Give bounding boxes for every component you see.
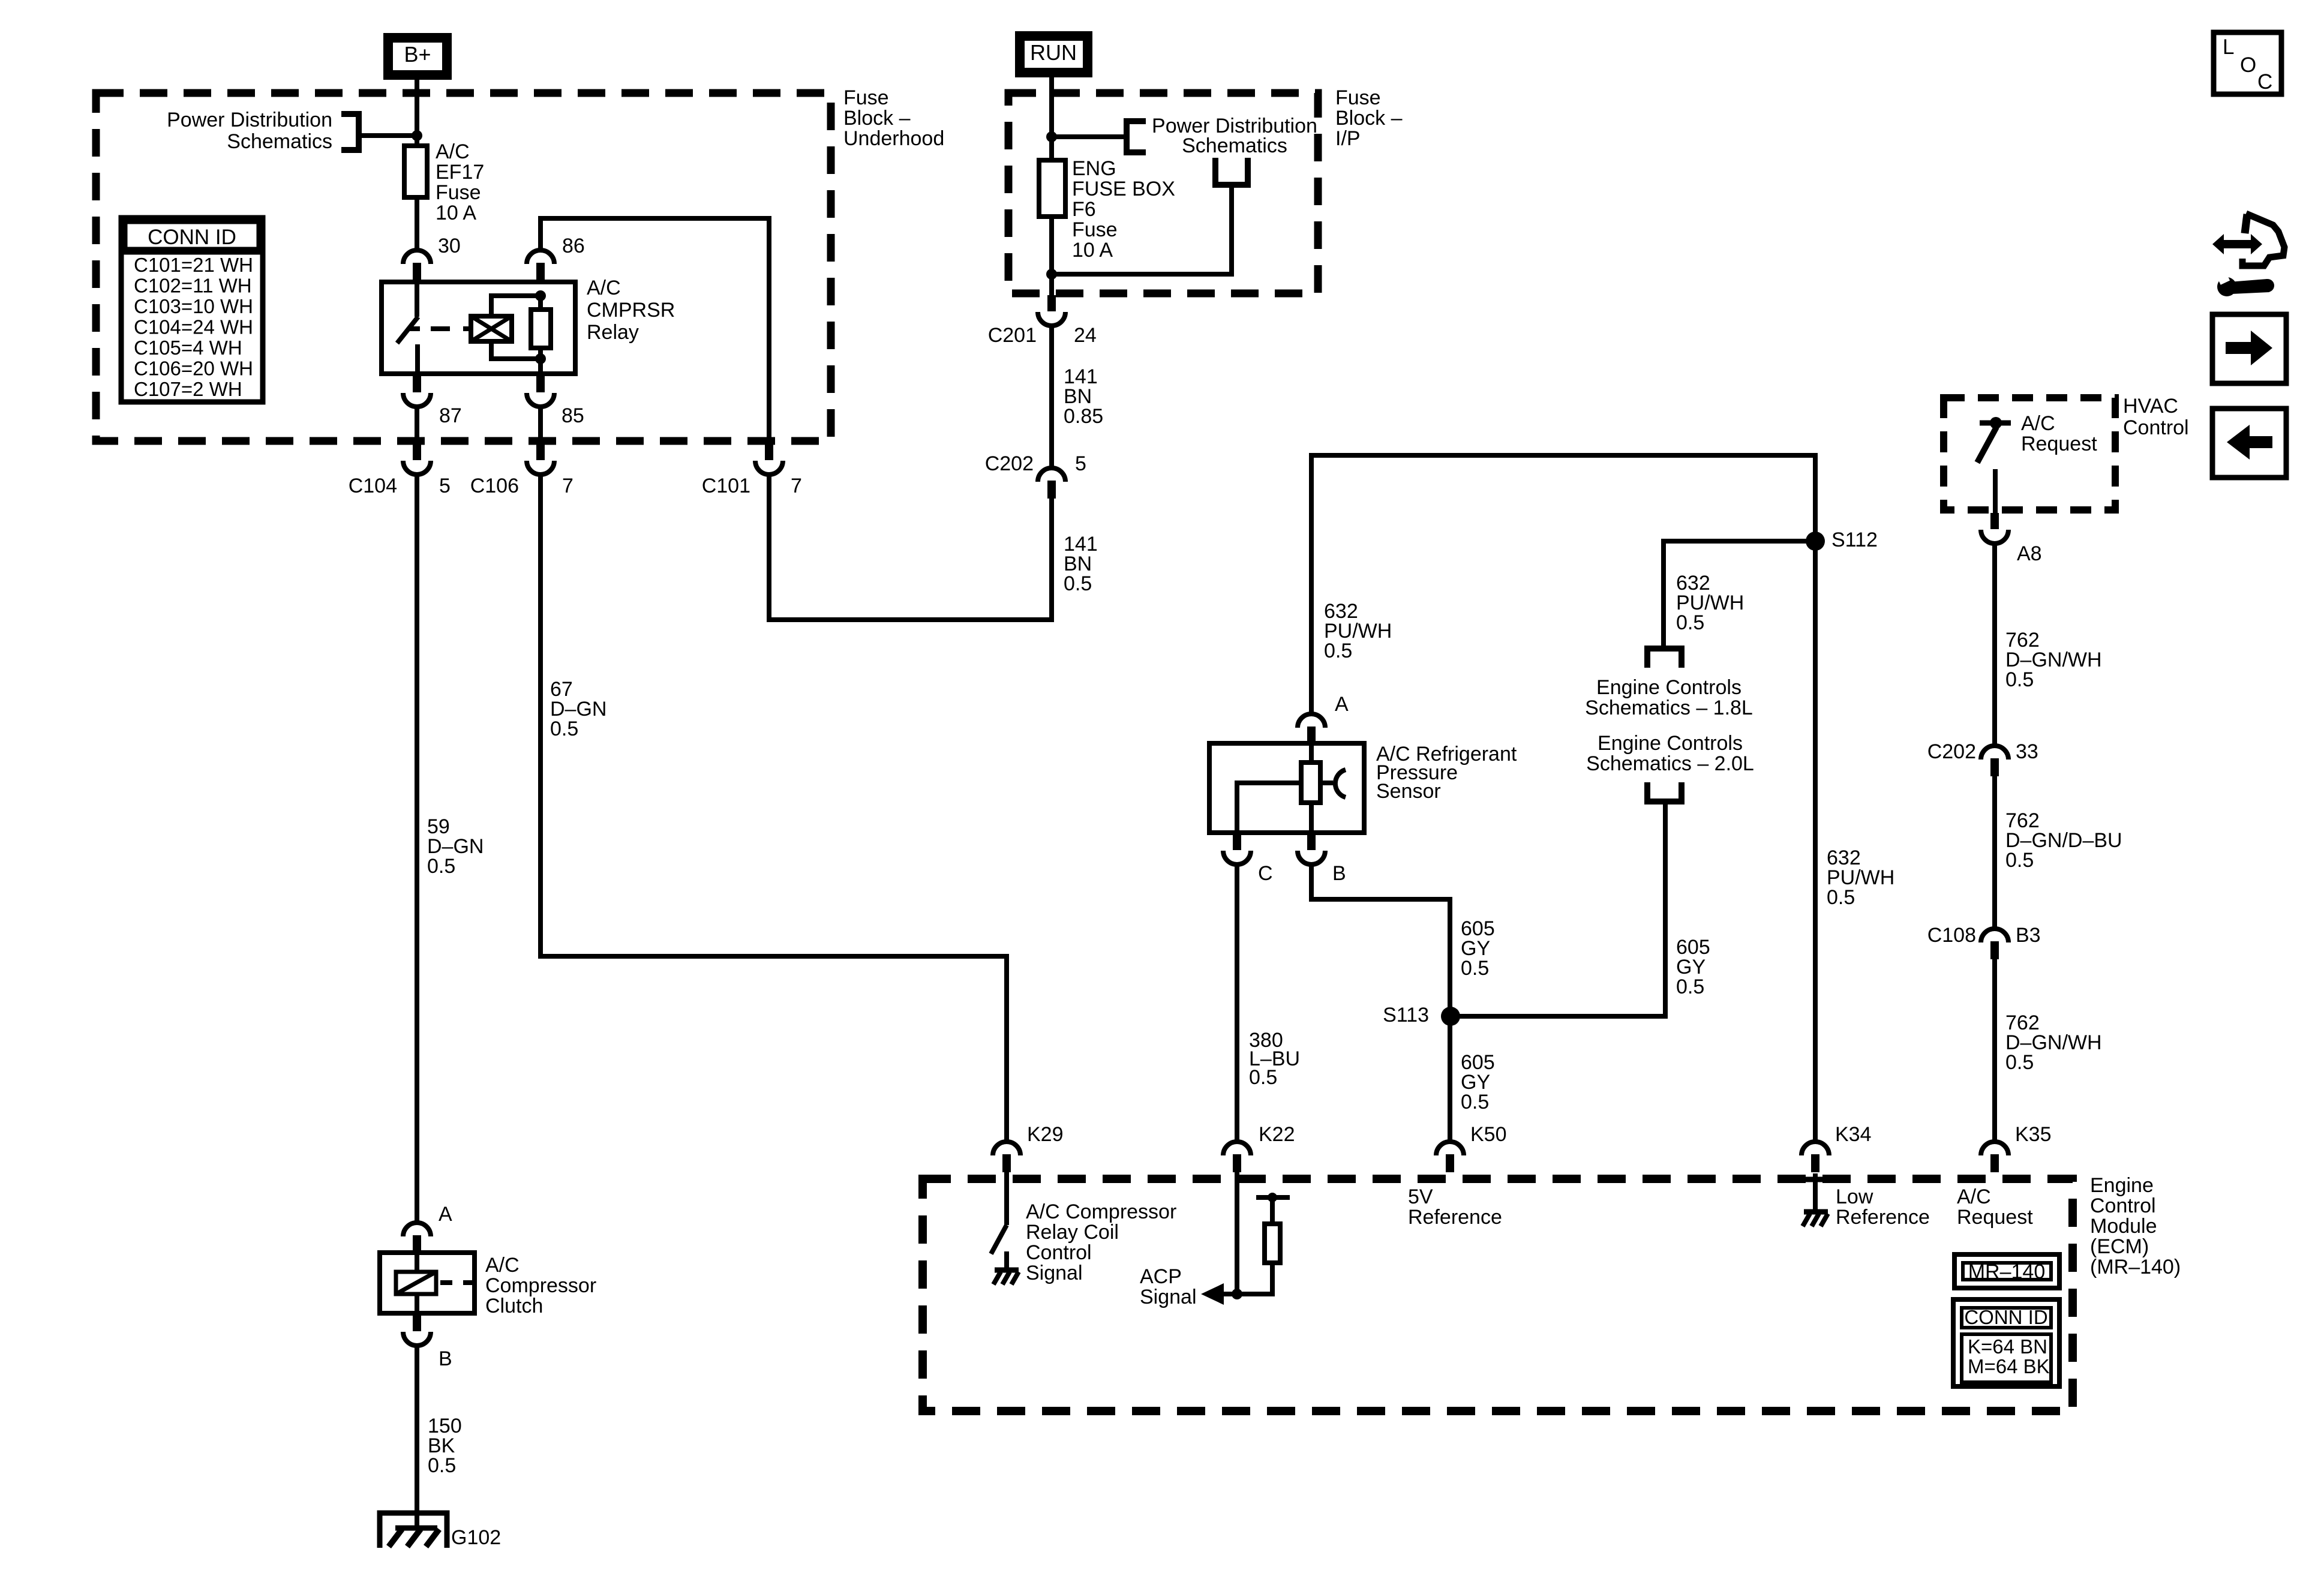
label G102 (451, 1526, 501, 1549)
ground G102 hatch (389, 1528, 439, 1547)
svg-text:Low: Low (1836, 1185, 1873, 1208)
label C202 (pin 33) (1927, 740, 1976, 763)
label A/C Request (ECM) (1957, 1185, 2033, 1229)
label C104 pin 5 (439, 475, 451, 497)
svg-text:0.5: 0.5 (1676, 975, 1704, 998)
svg-text:Underhood: Underhood (843, 127, 944, 150)
wire fuse to relay pin 30 (415, 197, 419, 250)
wire C202-33 to C108 (1992, 776, 1997, 929)
label HVAC Control (2123, 395, 2189, 439)
label K34 (1835, 1123, 1872, 1146)
label C202 (pin 5) (985, 452, 1034, 475)
ground G102 frame (380, 1513, 447, 1548)
relay coil wiring bottom (491, 341, 541, 359)
svg-text:(MR–140): (MR–140) (2090, 1256, 2181, 1278)
power feed RUN box (1015, 31, 1092, 77)
wire C101 routing to C202 (769, 475, 1052, 620)
svg-text:C104: C104 (349, 475, 397, 497)
off-page bracket right (Power Distribution I/P) (1052, 118, 1146, 155)
label Engine Controls Schematics 2.0L (1586, 732, 1754, 775)
ECM K22 sense wire (1235, 1172, 1239, 1294)
label wire 762 D-GN/WH 0.5 (lower) (2005, 1011, 2102, 1074)
label K35 (2015, 1123, 2052, 1146)
svg-text:Reference: Reference (1408, 1206, 1502, 1229)
wire sensor B to S113/K50 (1311, 864, 1450, 1142)
power feed B+ box (383, 33, 452, 80)
label sensor pin B (1332, 862, 1346, 885)
off-page bracket Engine Controls 1.8L (1644, 649, 1685, 668)
svg-text:A/C: A/C (2021, 412, 2055, 435)
svg-text:0.5: 0.5 (428, 1454, 456, 1477)
label C101 pin 7 (791, 475, 802, 497)
wire pin 87 to C104 (415, 407, 419, 445)
svg-text:Engine: Engine (2090, 1174, 2154, 1197)
svg-text:87: 87 (439, 404, 462, 427)
svg-text:C101: C101 (702, 475, 750, 497)
label wire 605 GY 0.5 (sensor B) (1461, 917, 1495, 980)
svg-text:10 A: 10 A (1072, 239, 1113, 262)
svg-text:0.5: 0.5 (1461, 957, 1489, 980)
svg-text:Request: Request (2021, 433, 2097, 455)
connector K34 (1801, 1142, 1829, 1172)
label A/C Compressor Relay Coil Control Signal (1026, 1200, 1176, 1284)
svg-text:Power Distribution: Power Distribution (167, 109, 332, 131)
connector sensor pin B (1298, 834, 1325, 864)
svg-text:Schematics – 1.8L: Schematics – 1.8L (1585, 697, 1753, 719)
label Engine Control Module ECM MR-140 (2090, 1174, 2181, 1278)
ground hatch (low reference) (1803, 1212, 1828, 1226)
connector C201 pin 24 (1038, 295, 1065, 326)
svg-text:Signal: Signal (1026, 1262, 1083, 1284)
svg-text:Block –: Block – (843, 107, 911, 130)
svg-text:86: 86 (562, 235, 585, 257)
svg-text:A8: A8 (2017, 542, 2042, 565)
sensor pressure arc (1320, 770, 1346, 797)
CONN ID box (ECM) (1953, 1299, 2059, 1386)
dashed box Fuse Block I/P (1008, 93, 1318, 293)
svg-text:Engine Controls: Engine Controls (1598, 732, 1743, 755)
svg-text:30: 30 (438, 235, 461, 257)
svg-text:L: L (2223, 35, 2234, 59)
svg-text:0.5: 0.5 (1827, 886, 1855, 909)
label pin 85 (562, 404, 584, 427)
svg-text:0.5: 0.5 (2005, 668, 2034, 691)
svg-text:10 A: 10 A (436, 202, 476, 224)
junction node coil top (535, 290, 546, 301)
svg-text:C101=21 WH: C101=21 WH (134, 254, 253, 276)
label C106 pin 7 (562, 475, 574, 497)
svg-text:HVAC: HVAC (2123, 395, 2178, 418)
label wire 632 PU/WH 0.5 (sensor A) (1324, 600, 1392, 662)
label Fuse Block Underhood (843, 86, 944, 150)
wire C104 to A/C compressor clutch (415, 475, 419, 1223)
svg-text:K50: K50 (1470, 1123, 1507, 1146)
label C201 (988, 324, 1037, 347)
connector relay pin 87 (403, 376, 431, 407)
svg-text:0.5: 0.5 (1064, 572, 1092, 595)
svg-text:5: 5 (1075, 452, 1086, 475)
svg-text:0.85: 0.85 (1064, 405, 1103, 428)
svg-text:5: 5 (439, 475, 451, 497)
svg-text:C104=24 WH: C104=24 WH (134, 316, 253, 338)
sensor internal resistor (1301, 743, 1320, 833)
svg-text:C202: C202 (1927, 740, 1976, 763)
svg-text:B: B (439, 1347, 452, 1370)
label C201 pin 24 (1074, 324, 1097, 347)
wire S112 to K34 (1813, 541, 1818, 1142)
svg-text:C102=11 WH: C102=11 WH (134, 275, 252, 297)
svg-text:0.5: 0.5 (1324, 640, 1352, 662)
wire S112 branch to 1.8L bracket (1664, 541, 1815, 649)
label A/C CMPRSR Relay (587, 277, 675, 344)
svg-text:Fuse: Fuse (436, 181, 481, 204)
connector C101 pin 7 (755, 444, 783, 475)
label A/C Request (HVAC) (2021, 412, 2097, 455)
svg-text:0.5: 0.5 (2005, 849, 2034, 872)
label wire 632 PU/WH 0.5 (branch) (1676, 572, 1744, 634)
label ENG FUSE BOX F6 (1072, 157, 1175, 262)
label wire 762 D-GN/WH 0.5 (upper) (2005, 629, 2102, 691)
sensor internal wire to pin C (1237, 783, 1301, 833)
MR-140 box (1954, 1254, 2059, 1288)
wire A8 to C202-33 (1992, 544, 1997, 746)
A/C refrigerant pressure sensor box (1209, 743, 1364, 833)
svg-text:Fuse: Fuse (1335, 86, 1381, 109)
label Fuse Block I/P (1335, 86, 1403, 150)
ground hatch (K29 driver) (993, 1270, 1019, 1284)
label wire 141 BN 0.5 (1064, 533, 1098, 595)
svg-text:MR–140: MR–140 (1968, 1260, 2046, 1283)
svg-text:A: A (1335, 693, 1349, 716)
svg-text:24: 24 (1074, 324, 1097, 347)
dashed box Fuse Block Underhood (96, 93, 831, 441)
svg-text:C103=10 WH: C103=10 WH (134, 295, 253, 317)
connector sensor pin C (1223, 834, 1251, 864)
wire C108 to K35 (1992, 959, 1997, 1142)
svg-text:C105=4 WH: C105=4 WH (134, 337, 242, 359)
svg-text:7: 7 (791, 475, 802, 497)
fuse A/C EF17 10A (404, 146, 427, 197)
connector clutch pin A (403, 1223, 431, 1253)
svg-text:Reference: Reference (1836, 1206, 1930, 1229)
vehicle + wrench icon (2212, 214, 2284, 296)
svg-text:S113: S113 (1383, 1004, 1429, 1026)
next-page arrow box (2212, 314, 2286, 383)
svg-text:CONN ID: CONN ID (148, 226, 236, 249)
splice S113 (1441, 1007, 1460, 1026)
A/C request switch (1977, 417, 2011, 513)
label A/C Compressor Clutch (485, 1254, 596, 1317)
label S112 (1831, 529, 1878, 551)
wire B+ to junction (415, 80, 419, 147)
label C202 pin 5 (1075, 452, 1086, 475)
label wire 67 D-GN 0.5 (550, 678, 606, 740)
svg-text:F6: F6 (1072, 198, 1096, 221)
ECM low reference ground (1800, 1173, 1830, 1213)
svg-text:K=64 BN: K=64 BN (1968, 1335, 2047, 1358)
wire C106 to K29 (541, 475, 1007, 1142)
connector K29 (993, 1142, 1020, 1172)
label wire 632 PU/WH 0.5 (K34) (1827, 846, 1894, 909)
svg-text:Compressor: Compressor (485, 1274, 596, 1297)
svg-text:A: A (439, 1203, 452, 1226)
svg-text:C108: C108 (1927, 924, 1976, 947)
connector C104 pin 5 (403, 444, 431, 475)
label C202 pin 33 (2016, 740, 2038, 763)
relay actuator dashed link (431, 326, 471, 331)
off-page bracket Power Distribution return (1052, 158, 1251, 274)
label Power Distribution Schematics (left) (167, 109, 332, 153)
svg-text:Control: Control (2123, 416, 2189, 439)
svg-text:Relay Coil: Relay Coil (1026, 1221, 1119, 1244)
svg-text:Engine Controls: Engine Controls (1596, 676, 1742, 699)
svg-text:Schematics – 2.0L: Schematics – 2.0L (1586, 752, 1754, 775)
svg-text:85: 85 (562, 404, 584, 427)
svg-text:Request: Request (1957, 1206, 2033, 1229)
label Low Reference (1836, 1185, 1930, 1229)
connector C202 pin 5 (1038, 468, 1065, 499)
label sensor pin C (1258, 862, 1273, 885)
connector K35 (1981, 1142, 2008, 1172)
label clutch pin B (439, 1347, 452, 1370)
wire S113 branch to 2.0L bracket (1451, 803, 1665, 1016)
wire coil to pin 85 (538, 359, 543, 374)
label wire 605 GY 0.5 (branch) (1676, 936, 1710, 998)
svg-text:0.5: 0.5 (1249, 1066, 1277, 1089)
svg-text:A/C: A/C (587, 277, 621, 299)
connector K22 (1223, 1142, 1251, 1172)
svg-text:0.5: 0.5 (1676, 611, 1704, 634)
wire C201 feed (1049, 274, 1054, 295)
connector sensor pin A (1298, 714, 1325, 745)
dashed box Engine Control Module (923, 1179, 2073, 1411)
label pin 30 (438, 235, 461, 257)
label C104 (349, 475, 397, 497)
relay coil wiring top (491, 296, 541, 316)
svg-text:Control: Control (2090, 1194, 2156, 1217)
svg-text:CONN ID: CONN ID (1964, 1306, 2047, 1328)
label 5V Reference (1408, 1185, 1502, 1229)
wire RUN down (1049, 77, 1054, 162)
connector relay pin 86 (527, 250, 554, 281)
ECM switch (relay coil driver) (991, 1172, 1007, 1268)
label wire 59 D-GN 0.5 (427, 815, 484, 878)
svg-text:C: C (2257, 70, 2272, 94)
connector K50 (1436, 1142, 1464, 1172)
label S113 (1383, 1004, 1429, 1026)
svg-text:Relay: Relay (587, 321, 639, 344)
svg-text:5V: 5V (1408, 1185, 1433, 1208)
LOC icon box (2214, 32, 2281, 94)
svg-text:Block –: Block – (1335, 107, 1403, 130)
svg-text:Fuse: Fuse (843, 86, 889, 109)
svg-text:K34: K34 (1835, 1123, 1872, 1146)
svg-text:Signal: Signal (1140, 1286, 1197, 1308)
ECM pullup supply bar (1256, 1193, 1290, 1202)
label C108 pin B3 (2016, 924, 2041, 947)
ECM pullup resistor (1237, 1197, 1280, 1294)
svg-text:C107=2 WH: C107=2 WH (134, 378, 242, 400)
connector relay pin 30 (403, 250, 431, 281)
label pin 86 (562, 235, 585, 257)
connector A8 (1981, 513, 2008, 544)
svg-text:EF17: EF17 (436, 161, 484, 184)
connector C108 pin B3 (1981, 929, 2008, 959)
svg-text:Schematics: Schematics (227, 130, 332, 153)
svg-text:ENG: ENG (1072, 157, 1116, 180)
label wire 605 GY 0.5 (below S113) (1461, 1051, 1495, 1113)
svg-text:ACP: ACP (1140, 1265, 1182, 1288)
label K22 (1259, 1123, 1295, 1146)
wire sensor A to S112 (1311, 455, 1815, 714)
label A8 (2017, 542, 2042, 565)
connector C106 pin 7 (527, 444, 554, 475)
fuse ENG FUSE BOX F6 (1039, 160, 1065, 217)
svg-text:K22: K22 (1259, 1123, 1295, 1146)
splice S112 (1806, 532, 1825, 551)
wire clutch to G102 (415, 1346, 419, 1530)
svg-text:7: 7 (562, 475, 574, 497)
clutch coil symbol (396, 1253, 475, 1313)
svg-text:A/C: A/C (436, 140, 470, 163)
dashed box HVAC Control (1944, 398, 2115, 510)
label pin 87 (439, 404, 462, 427)
svg-text:C106: C106 (470, 475, 519, 497)
label K50 (1470, 1123, 1507, 1146)
label Engine Controls Schematics 1.8L (1585, 676, 1753, 719)
label wire 141 BN 0.85 (1064, 365, 1103, 428)
label C106 (470, 475, 519, 497)
junction node F6 bottom (1046, 269, 1057, 280)
label K29 (1027, 1123, 1064, 1146)
junction node coil bottom (535, 353, 546, 364)
label wire 380 L-BU 0.5 (1249, 1029, 1300, 1089)
connector relay pin 85 (527, 376, 554, 407)
relay resistor (531, 296, 551, 359)
label Power Distribution Schematics (I/P) (1152, 115, 1317, 157)
svg-text:B3: B3 (2016, 924, 2041, 947)
label clutch pin A (439, 1203, 452, 1226)
label C101 (702, 475, 750, 497)
off-page bracket Engine Controls 2.0L (1644, 782, 1685, 801)
label ACP Signal (1140, 1265, 1197, 1308)
svg-text:0.5: 0.5 (427, 855, 455, 878)
svg-text:K29: K29 (1027, 1123, 1064, 1146)
svg-text:Clutch: Clutch (485, 1295, 543, 1317)
off-page bracket left (Power Distribution) (341, 111, 417, 153)
junction node ACP (1232, 1289, 1242, 1299)
svg-text:FUSE BOX: FUSE BOX (1072, 178, 1175, 200)
wire fuse F6 down (1049, 217, 1054, 274)
svg-text:Module: Module (2090, 1215, 2157, 1238)
CONN ID table (underhood) (121, 218, 263, 402)
label wire 150 BK 0.5 (428, 1415, 462, 1477)
wire pin 85 to C106 (538, 407, 543, 445)
svg-text:M=64 BK: M=64 BK (1968, 1355, 2050, 1377)
svg-text:0.5: 0.5 (550, 718, 578, 740)
svg-text:C202: C202 (985, 452, 1034, 475)
svg-text:0.5: 0.5 (1461, 1091, 1489, 1113)
prev-page arrow box (2212, 409, 2286, 478)
svg-text:Control: Control (1026, 1241, 1092, 1264)
A/C compressor clutch box (380, 1253, 475, 1313)
label fuse A/C EF17 (436, 140, 484, 224)
junction node below B+ (412, 130, 422, 141)
svg-text:O: O (2240, 53, 2256, 77)
svg-text:C201: C201 (988, 324, 1037, 347)
svg-text:Schematics: Schematics (1182, 134, 1287, 157)
svg-text:(ECM): (ECM) (2090, 1235, 2149, 1258)
svg-text:I/P: I/P (1335, 127, 1361, 150)
relay A/C CMPRSR box (382, 282, 575, 374)
svg-text:RUN: RUN (1030, 40, 1077, 65)
svg-text:S112: S112 (1831, 529, 1878, 551)
label C108 (1927, 924, 1976, 947)
wire C101 to relay pin 86 (541, 218, 769, 442)
wire C201 to C202 (1049, 326, 1054, 469)
svg-text:33: 33 (2016, 740, 2038, 763)
svg-text:A/C: A/C (1957, 1185, 1991, 1208)
label wire 762 D-GN/D-BU 0.5 (2005, 809, 2122, 872)
svg-text:C106=20 WH: C106=20 WH (134, 358, 253, 380)
svg-text:K35: K35 (2015, 1123, 2052, 1146)
svg-text:B+: B+ (404, 42, 431, 67)
svg-text:G102: G102 (451, 1526, 501, 1549)
svg-text:Sensor: Sensor (1376, 780, 1441, 803)
svg-text:C: C (1258, 862, 1273, 885)
svg-text:B: B (1332, 862, 1346, 885)
svg-text:CMPRSR: CMPRSR (587, 299, 675, 322)
svg-text:A/C Compressor: A/C Compressor (1026, 1200, 1176, 1223)
junction node below RUN (1046, 131, 1057, 142)
svg-text:0.5: 0.5 (2005, 1051, 2034, 1074)
svg-text:A/C: A/C (485, 1254, 520, 1277)
relay coil box (471, 316, 512, 341)
connector clutch pin B (403, 1315, 431, 1346)
connector C202 pin 33 (1981, 746, 2008, 776)
ACP signal arrow (1201, 1283, 1237, 1305)
label sensor pin A (1335, 693, 1349, 716)
svg-text:Fuse: Fuse (1072, 218, 1118, 241)
wire sensor C to K22 (380 L-BU) (1235, 864, 1239, 1142)
relay switch (30-87) (397, 282, 420, 374)
label A/C Refrigerant Pressure Sensor (1376, 743, 1517, 803)
